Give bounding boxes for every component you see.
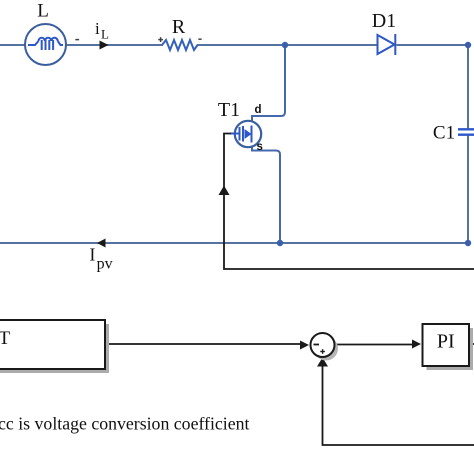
svg-text:L: L [101, 27, 109, 42]
svg-text:T: T [0, 328, 11, 349]
svg-text:s: s [257, 141, 263, 153]
svg-text:pv: pv [97, 255, 113, 272]
svg-text:R: R [172, 16, 186, 38]
svg-text:cc is voltage conversion coeff: cc is voltage conversion coefficient [0, 414, 250, 434]
svg-text:PI: PI [437, 331, 455, 353]
svg-text:i: i [95, 19, 100, 38]
svg-text:L: L [37, 1, 49, 22]
svg-text:I: I [90, 245, 96, 265]
svg-text:d: d [255, 104, 262, 116]
svg-text:D1: D1 [372, 10, 396, 32]
svg-text:T1: T1 [218, 99, 240, 121]
svg-text:C1: C1 [433, 123, 455, 144]
